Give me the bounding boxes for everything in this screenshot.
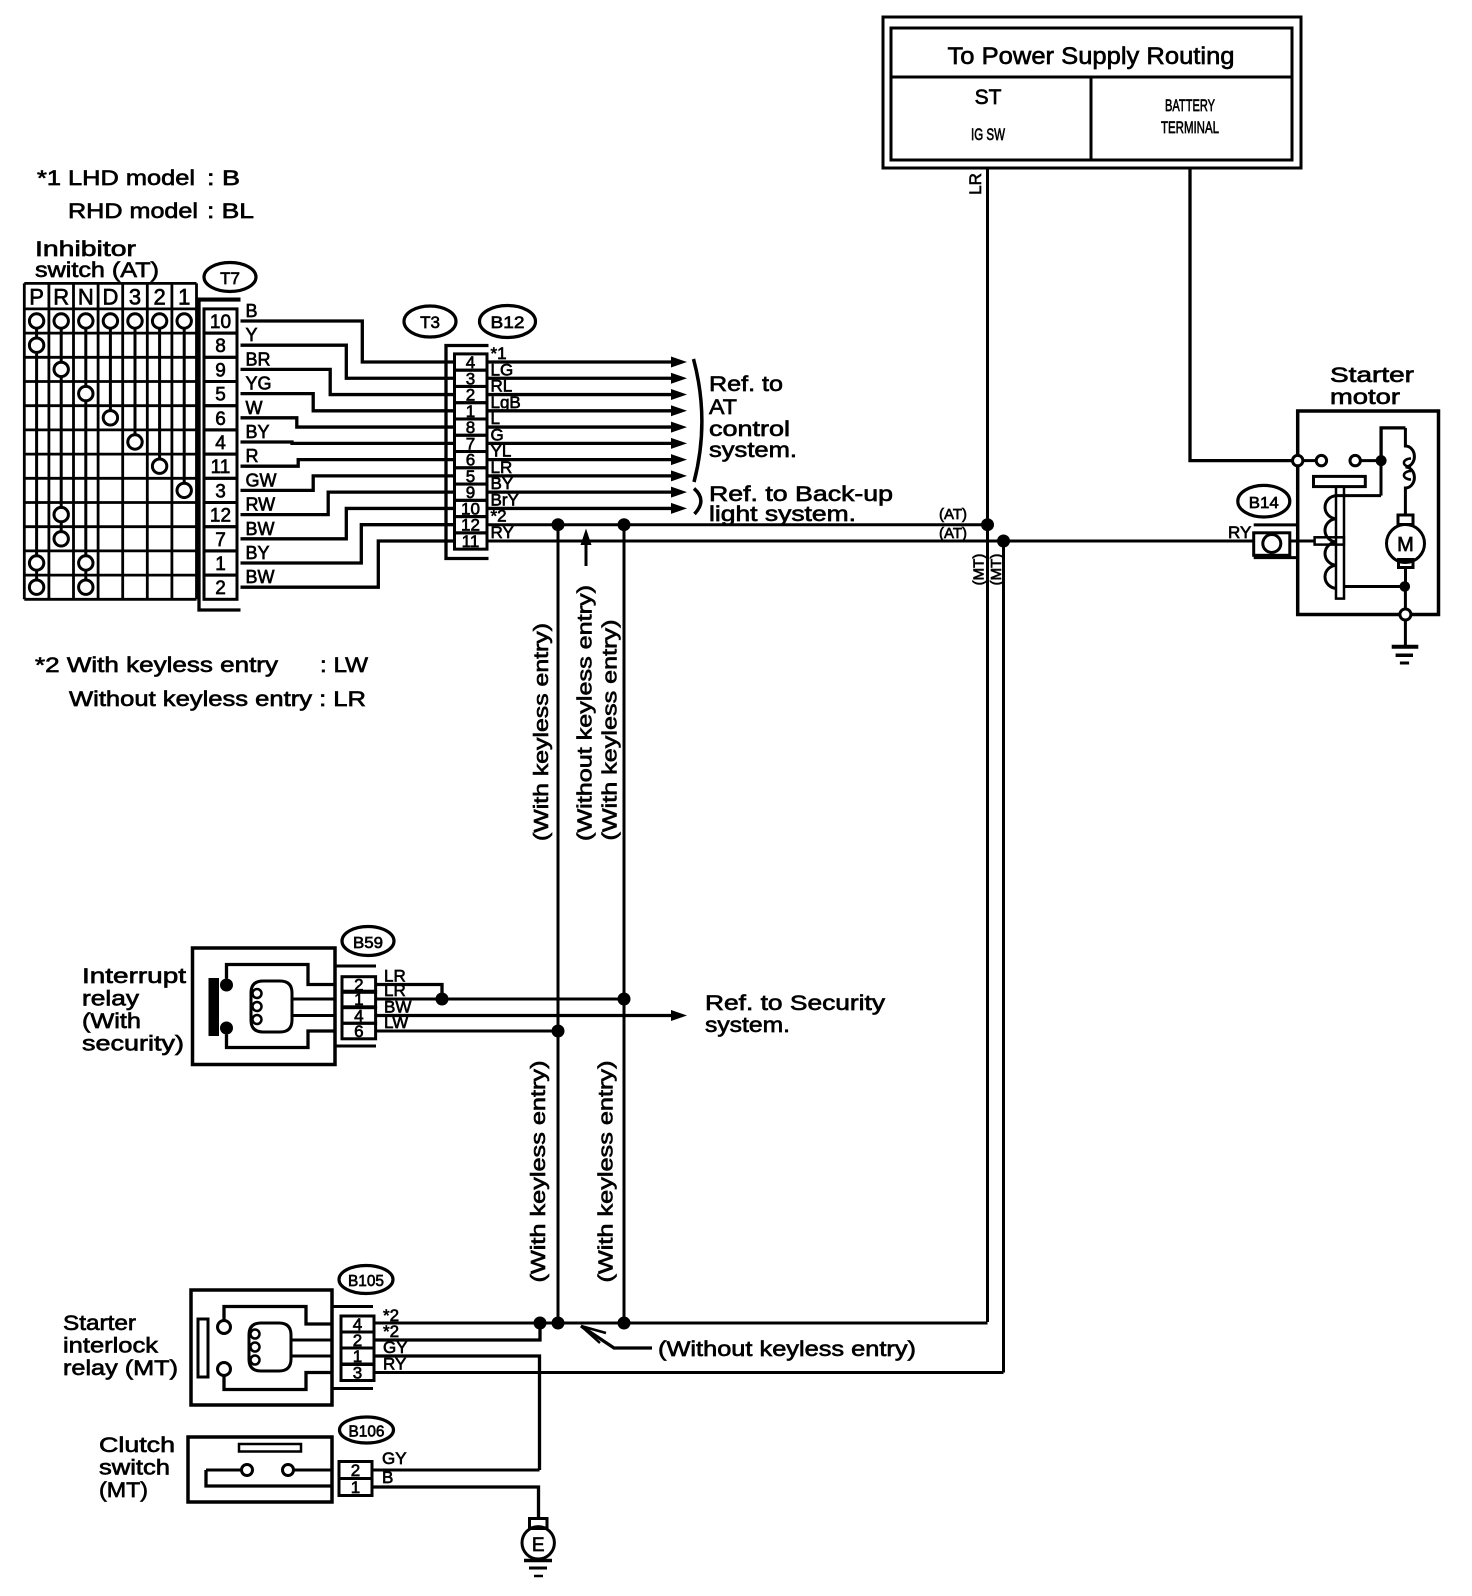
svg-text:switch (AT): switch (AT)	[35, 259, 159, 282]
svg-text:6: 6	[354, 1022, 363, 1041]
svg-text:RY: RY	[1228, 523, 1251, 542]
svg-text:B59: B59	[353, 935, 383, 952]
svg-text:system.: system.	[705, 1014, 790, 1037]
svg-text:B12: B12	[491, 313, 525, 332]
svg-text:(MT): (MT)	[99, 1479, 148, 1502]
svg-text:(Without keyless entry): (Without keyless entry)	[574, 585, 597, 841]
svg-text:5: 5	[215, 385, 226, 406]
svg-text:GW: GW	[246, 470, 277, 490]
svg-text:(MT): (MT)	[971, 554, 988, 586]
svg-text:E: E	[532, 1535, 545, 1556]
svg-text:relay: relay	[82, 988, 140, 1011]
svg-text:T3: T3	[420, 313, 440, 332]
svg-text:3: 3	[129, 284, 141, 309]
svg-text:*1 LHD model: *1 LHD model	[37, 167, 195, 190]
svg-text:Interrupt: Interrupt	[82, 965, 186, 988]
svg-text:R: R	[53, 284, 69, 309]
svg-text:motor: motor	[1330, 386, 1400, 409]
svg-text:To Power Supply Routing: To Power Supply Routing	[948, 43, 1235, 70]
svg-text:BW: BW	[246, 519, 275, 539]
svg-text:interlock: interlock	[63, 1335, 159, 1358]
svg-text:6: 6	[215, 409, 226, 430]
svg-text:M: M	[1397, 534, 1414, 556]
svg-text:2: 2	[153, 284, 165, 309]
svg-text:: LW: : LW	[320, 654, 368, 677]
svg-text:security): security)	[82, 1033, 184, 1056]
svg-text:LR: LR	[966, 173, 985, 195]
svg-text:(With keyless entry): (With keyless entry)	[595, 1061, 618, 1283]
svg-text:IG SW: IG SW	[971, 125, 1005, 144]
svg-text:R: R	[246, 446, 259, 466]
svg-text:1: 1	[351, 1478, 360, 1497]
svg-text:N: N	[78, 284, 94, 309]
svg-text:: B: : B	[207, 167, 240, 190]
svg-text:YG: YG	[246, 374, 272, 394]
svg-text:B: B	[246, 301, 258, 321]
svg-text:RHD model: RHD model	[68, 200, 198, 223]
svg-text:(With keyless entry): (With keyless entry)	[599, 620, 622, 841]
svg-text:RW: RW	[246, 495, 276, 515]
svg-text:2: 2	[215, 578, 226, 599]
svg-text:TERMINAL: TERMINAL	[1161, 118, 1219, 137]
svg-text:BR: BR	[246, 349, 271, 369]
svg-text:11: 11	[211, 457, 231, 478]
svg-text:BW: BW	[246, 567, 275, 587]
svg-text:B14: B14	[1249, 495, 1279, 512]
svg-text:light system.: light system.	[709, 503, 856, 526]
svg-text:Starter: Starter	[1330, 364, 1414, 387]
svg-text:B106: B106	[349, 1424, 385, 1441]
svg-text:(With keyless entry): (With keyless entry)	[527, 1061, 550, 1283]
svg-text:Inhibitor: Inhibitor	[35, 238, 136, 261]
svg-text:11: 11	[462, 532, 480, 551]
svg-text:switch: switch	[99, 1457, 170, 1480]
svg-text:Starter: Starter	[63, 1312, 136, 1335]
svg-text:4: 4	[215, 433, 226, 454]
svg-text:W: W	[246, 398, 263, 418]
svg-text:control: control	[709, 418, 790, 441]
svg-text:1: 1	[215, 554, 226, 575]
svg-text:P: P	[29, 284, 44, 309]
svg-text:AT: AT	[709, 396, 737, 419]
svg-text:Y: Y	[246, 325, 258, 345]
svg-text:1: 1	[178, 284, 190, 309]
svg-text:(AT): (AT)	[939, 525, 967, 542]
svg-text:D: D	[102, 284, 118, 309]
svg-text:BY: BY	[246, 543, 270, 563]
svg-text:GY: GY	[382, 1449, 407, 1468]
svg-text:ST: ST	[975, 86, 1002, 109]
svg-text:(With: (With	[82, 1010, 141, 1033]
svg-text:T7: T7	[220, 269, 240, 288]
svg-text:3: 3	[353, 1364, 362, 1383]
svg-text:(With keyless entry): (With keyless entry)	[530, 623, 553, 841]
svg-text:BATTERY: BATTERY	[1165, 96, 1215, 115]
svg-text:Without keyless entry : LR: Without keyless entry : LR	[69, 688, 366, 711]
svg-text:Ref. to: Ref. to	[709, 373, 783, 396]
svg-text:(MT): (MT)	[988, 554, 1005, 586]
svg-text:12: 12	[210, 506, 231, 527]
svg-text:8: 8	[215, 336, 226, 357]
svg-text:(AT): (AT)	[939, 506, 967, 523]
svg-text:7: 7	[215, 530, 226, 551]
svg-text:Ref. to Security: Ref. to Security	[705, 992, 886, 1015]
svg-text:system.: system.	[709, 439, 797, 462]
svg-text:(Without keyless entry): (Without keyless entry)	[658, 1338, 916, 1361]
svg-text:relay (MT): relay (MT)	[63, 1357, 178, 1380]
svg-text:3: 3	[215, 481, 226, 502]
svg-text:Clutch: Clutch	[99, 1434, 175, 1457]
svg-text:9: 9	[215, 360, 226, 381]
svg-text:10: 10	[210, 312, 231, 333]
svg-text:*2 With keyless entry: *2 With keyless entry	[35, 654, 279, 677]
svg-text:B105: B105	[348, 1273, 384, 1290]
svg-text:: BL: : BL	[207, 200, 254, 223]
svg-text:BY: BY	[246, 422, 270, 442]
